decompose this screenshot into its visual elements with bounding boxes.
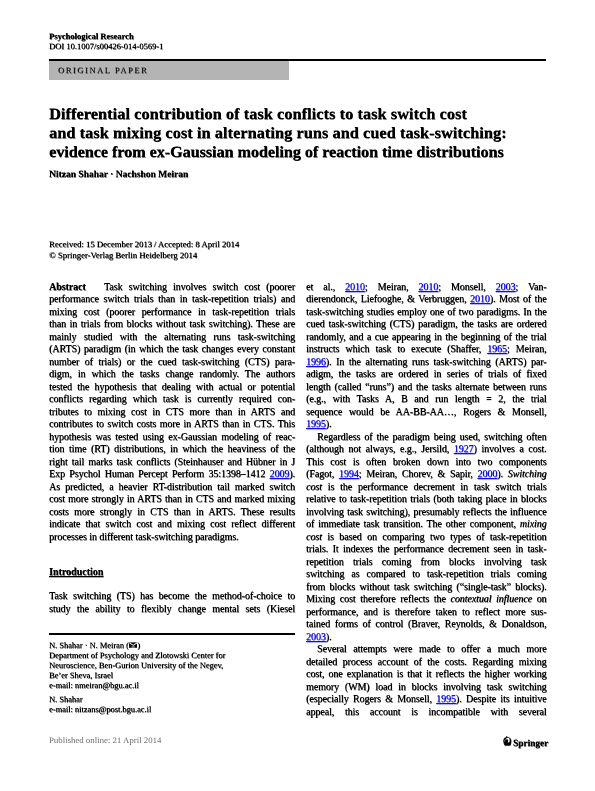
svg-text:Springer: Springer <box>513 739 548 749</box>
